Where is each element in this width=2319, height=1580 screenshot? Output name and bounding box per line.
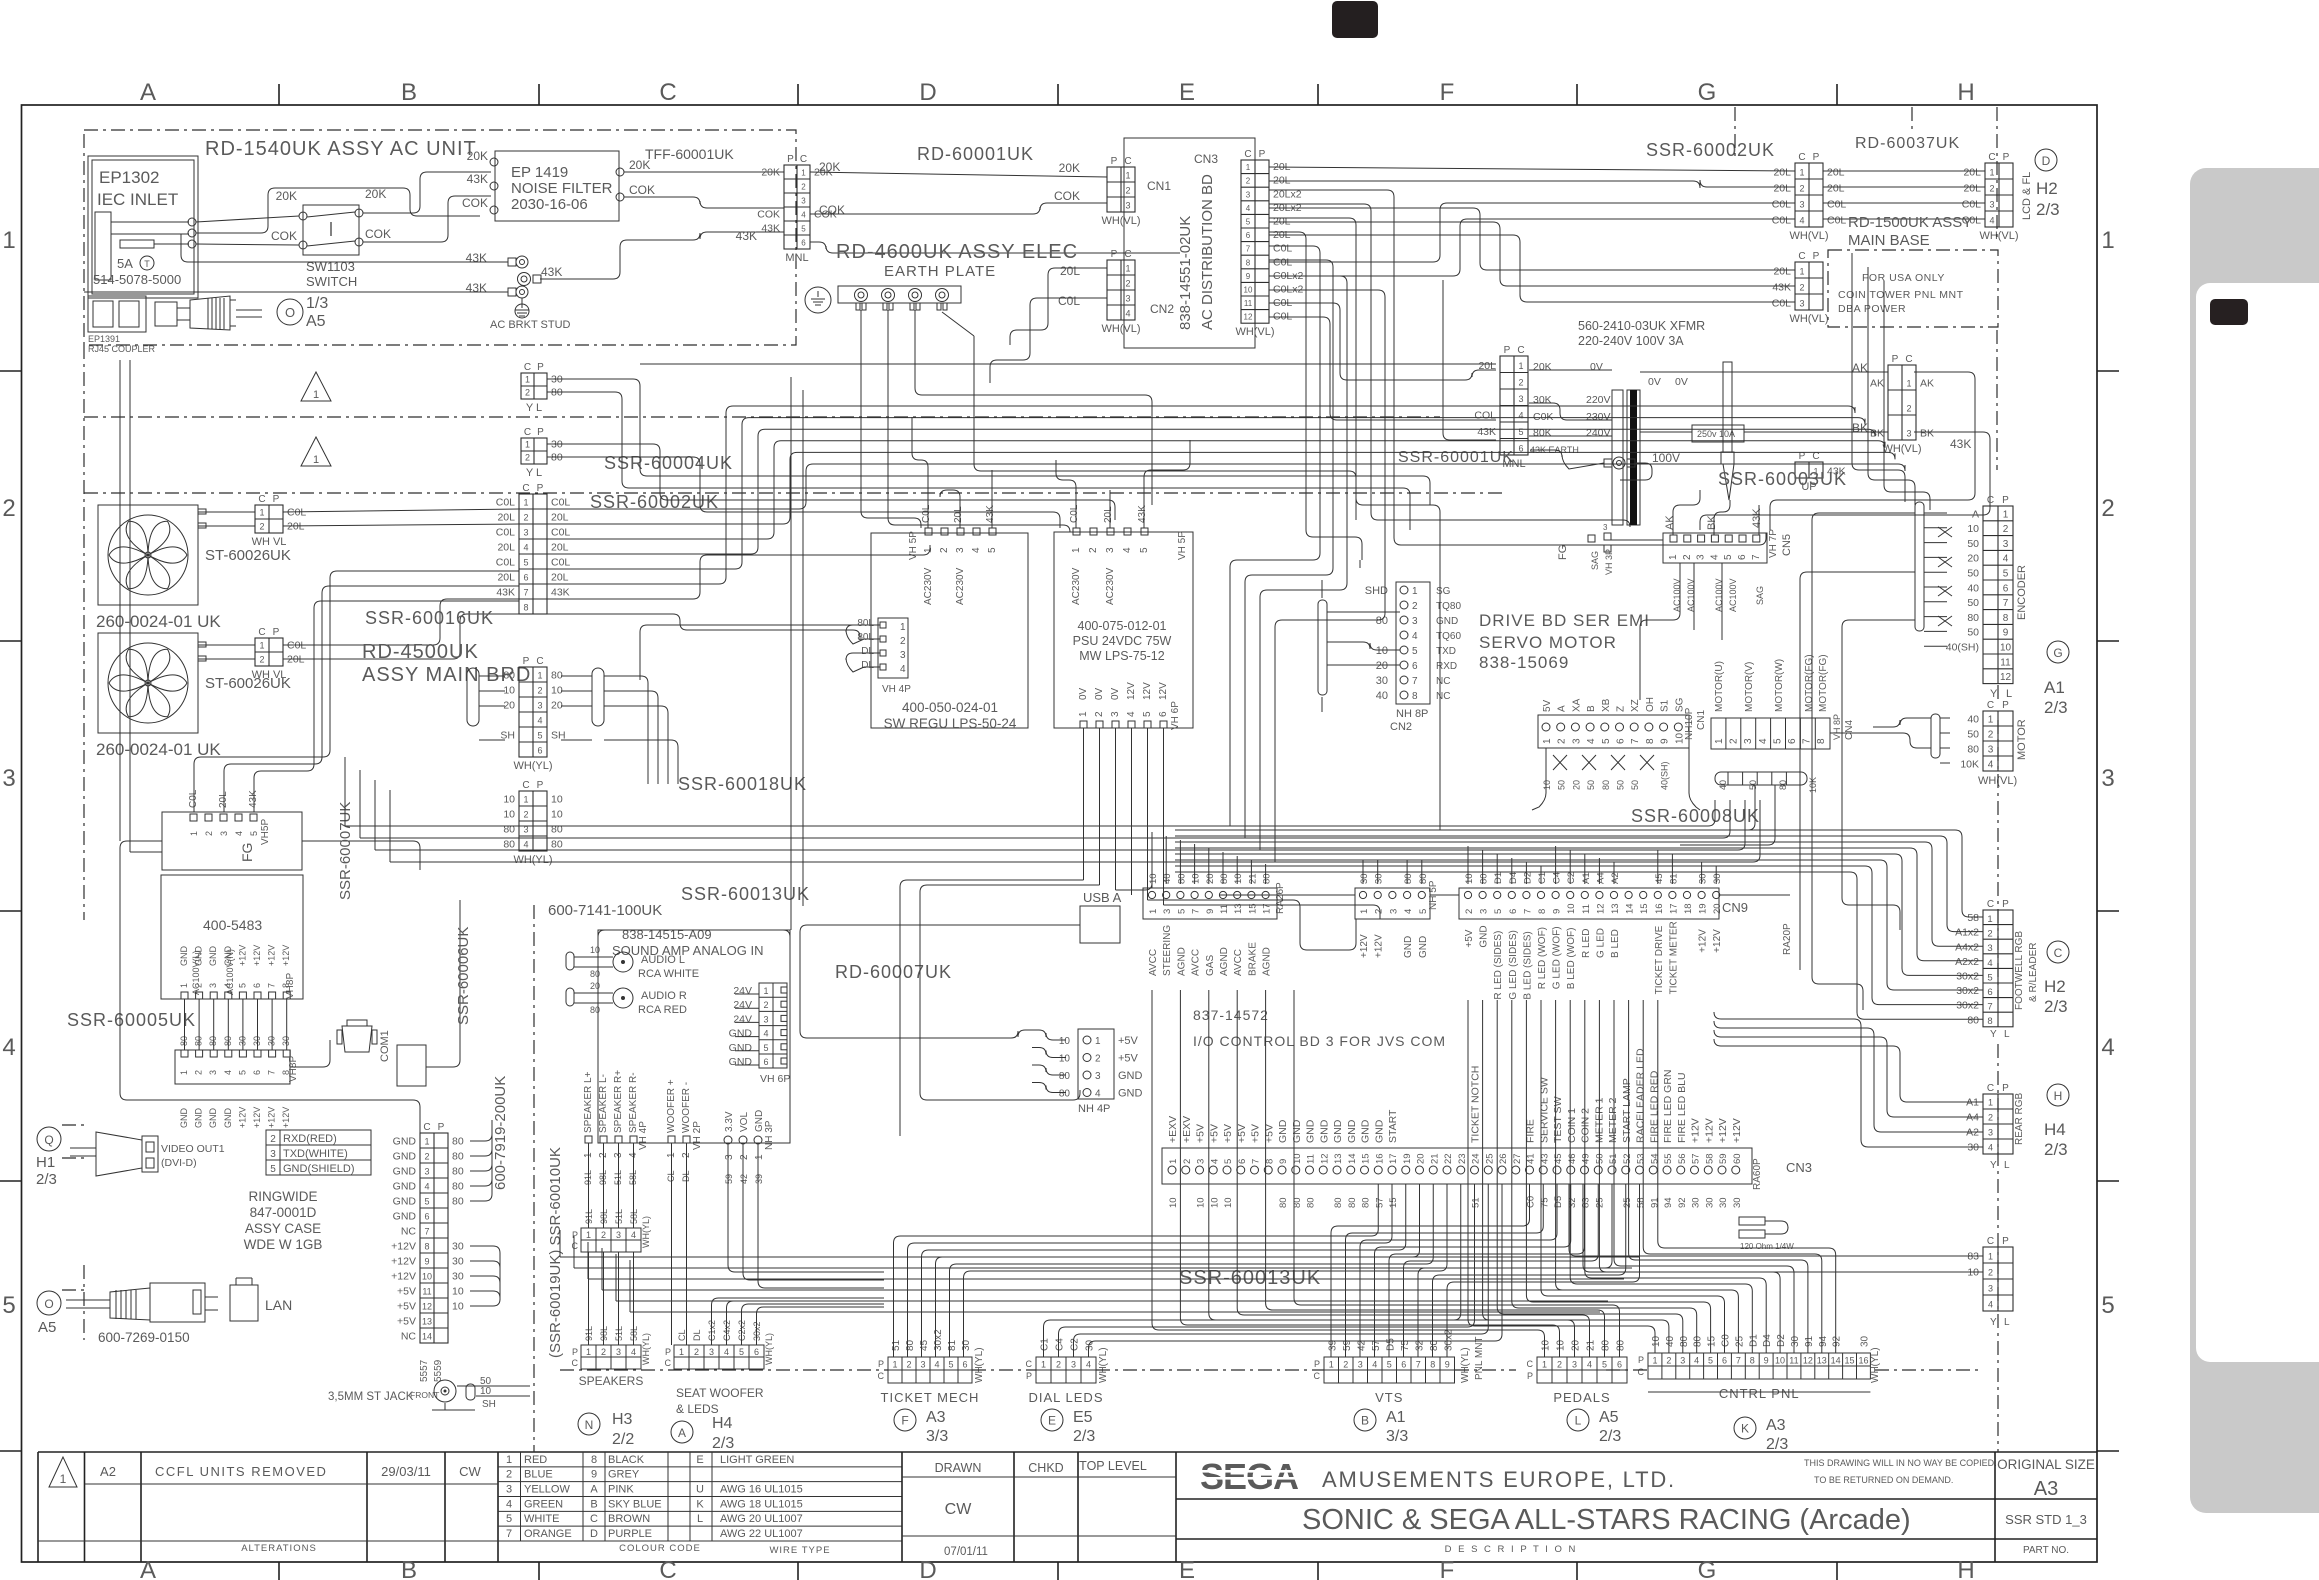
svg-text:+12V: +12V <box>252 1107 262 1128</box>
svg-text:51: 51 <box>1471 1197 1482 1208</box>
svg-text:P: P <box>1527 1371 1533 1381</box>
svg-text:C0K: C0K <box>1533 411 1553 423</box>
svg-text:400-075-012-01: 400-075-012-01 <box>1078 619 1167 633</box>
svg-text:SONIC & SEGA ALL-STARS RACING: SONIC & SEGA ALL-STARS RACING (Arcade) <box>1302 1504 1911 1536</box>
svg-text:52: 52 <box>1622 1153 1633 1164</box>
svg-text:NC: NC <box>1436 676 1450 687</box>
svg-text:10: 10 <box>1775 1356 1785 1366</box>
svg-text:SSR-60013UK: SSR-60013UK <box>1179 1267 1321 1289</box>
svg-text:4: 4 <box>2 1034 15 1061</box>
svg-text:20L: 20L <box>1773 167 1791 179</box>
svg-text:TO BE RETURNED ON DEMAND.: TO BE RETURNED ON DEMAND. <box>1814 1475 1953 1485</box>
svg-text:3: 3 <box>763 1014 768 1024</box>
svg-text:80: 80 <box>452 1196 464 1208</box>
svg-text:+5V: +5V <box>397 1301 416 1313</box>
svg-text:+12V: +12V <box>267 945 277 966</box>
svg-text:9: 9 <box>1764 1356 1769 1366</box>
svg-text:56: 56 <box>1677 1153 1688 1164</box>
svg-text:A2: A2 <box>100 1464 116 1479</box>
svg-text:& LEDS: & LEDS <box>676 1402 719 1416</box>
svg-text:4: 4 <box>1587 1360 1592 1370</box>
svg-text:USB A: USB A <box>1083 890 1122 905</box>
svg-text:PSU 24VDC 75W: PSU 24VDC 75W <box>1073 634 1172 648</box>
svg-text:4: 4 <box>1209 1159 1220 1164</box>
svg-text:WH(VL): WH(VL) <box>1979 230 2018 242</box>
svg-text:H2: H2 <box>2036 179 2058 198</box>
svg-text:4: 4 <box>1412 631 1418 642</box>
svg-text:SKY BLUE: SKY BLUE <box>608 1498 662 1510</box>
svg-text:30: 30 <box>1732 1197 1743 1208</box>
svg-text:BLACK: BLACK <box>608 1454 645 1466</box>
svg-text:D5: D5 <box>1385 1338 1396 1351</box>
svg-text:8: 8 <box>1430 1360 1435 1370</box>
svg-text:1: 1 <box>313 454 319 466</box>
svg-text:C0L: C0L <box>921 504 932 523</box>
svg-text:3: 3 <box>2003 539 2009 550</box>
svg-text:+12V: +12V <box>1698 929 1709 953</box>
svg-text:CN1: CN1 <box>1147 179 1171 193</box>
svg-text:LAN: LAN <box>265 1297 292 1313</box>
svg-text:AC230V: AC230V <box>955 567 966 605</box>
svg-text:43K: 43K <box>736 229 757 243</box>
svg-text:1: 1 <box>1987 914 1992 925</box>
svg-text:C: C <box>524 427 531 438</box>
svg-text:2/3: 2/3 <box>2036 200 2060 219</box>
svg-text:80: 80 <box>1601 1339 1612 1351</box>
svg-text:NH 8P: NH 8P <box>1396 708 1428 720</box>
svg-text:SSR-60004UK: SSR-60004UK <box>604 453 733 473</box>
svg-text:GND: GND <box>194 1108 204 1129</box>
svg-text:43K: 43K <box>466 281 487 295</box>
svg-text:80: 80 <box>1616 1339 1627 1351</box>
svg-text:80: 80 <box>452 1181 464 1193</box>
svg-text:P: P <box>2002 1083 2009 1094</box>
svg-text:START: START <box>1387 1109 1399 1143</box>
svg-text:14: 14 <box>1625 903 1636 914</box>
svg-text:8: 8 <box>1537 909 1548 914</box>
svg-text:+5V: +5V <box>1263 1124 1275 1143</box>
svg-text:8: 8 <box>1645 738 1656 744</box>
svg-text:3: 3 <box>537 701 542 711</box>
svg-text:8: 8 <box>523 603 528 613</box>
svg-text:20L: 20L <box>551 542 569 554</box>
svg-text:1: 1 <box>1989 168 1994 178</box>
svg-text:51: 51 <box>891 1339 902 1351</box>
svg-text:+5V: +5V <box>1195 1124 1207 1143</box>
svg-text:SG: SG <box>1436 586 1451 597</box>
svg-text:C: C <box>1124 156 1131 167</box>
svg-text:C4: C4 <box>1552 872 1563 884</box>
svg-text:26: 26 <box>1498 1153 1509 1164</box>
svg-text:2: 2 <box>204 831 214 836</box>
svg-text:0V: 0V <box>1078 687 1089 700</box>
svg-text:XZ: XZ <box>1630 699 1641 712</box>
svg-text:MW LPS-75-12: MW LPS-75-12 <box>1079 649 1164 663</box>
svg-text:60: 60 <box>1732 1153 1743 1164</box>
svg-text:5557: 5557 <box>419 1359 430 1382</box>
svg-text:VH 4P: VH 4P <box>882 684 911 695</box>
svg-text:40(SH): 40(SH) <box>1660 761 1670 790</box>
svg-text:GND: GND <box>1360 1119 1372 1143</box>
svg-text:80: 80 <box>1176 873 1187 884</box>
svg-text:9: 9 <box>1660 738 1671 744</box>
svg-text:3: 3 <box>424 1167 429 1177</box>
svg-text:+12V: +12V <box>237 945 247 966</box>
svg-text:G LED (WOF): G LED (WOF) <box>1552 926 1563 989</box>
svg-text:D4: D4 <box>1508 872 1519 884</box>
svg-text:80: 80 <box>905 1339 916 1351</box>
svg-text:RA60P: RA60P <box>1752 1158 1763 1190</box>
svg-text:AWG 20 UL1007: AWG 20 UL1007 <box>720 1513 803 1525</box>
svg-text:2: 2 <box>1666 1356 1671 1366</box>
svg-text:43K: 43K <box>761 223 780 235</box>
svg-text:80: 80 <box>1967 612 1979 624</box>
svg-text:43K: 43K <box>1137 505 1148 523</box>
svg-text:C: C <box>1638 1367 1645 1377</box>
svg-text:+12V: +12V <box>267 1107 277 1128</box>
svg-text:80: 80 <box>590 1005 600 1015</box>
svg-text:7: 7 <box>1522 909 1533 914</box>
svg-text:METER 2: METER 2 <box>1607 1097 1619 1143</box>
svg-text:MOTOR(W): MOTOR(W) <box>1774 659 1785 712</box>
svg-text:WH VL: WH VL <box>252 536 287 548</box>
svg-text:50: 50 <box>1616 780 1626 790</box>
svg-text:17: 17 <box>1668 903 1679 914</box>
svg-text:4: 4 <box>971 547 982 553</box>
svg-text:9: 9 <box>1278 1159 1289 1164</box>
svg-text:2: 2 <box>1989 184 1994 194</box>
svg-text:CN5: CN5 <box>1781 534 1793 556</box>
svg-text:43K: 43K <box>466 251 487 265</box>
svg-text:CNTRL PNL: CNTRL PNL <box>1719 1386 1800 1401</box>
svg-text:250v 10A: 250v 10A <box>1697 429 1735 439</box>
svg-text:SPEAKER R+: SPEAKER R+ <box>613 1070 624 1133</box>
svg-text:MOTOR(U): MOTOR(U) <box>1714 661 1725 712</box>
svg-text:A3: A3 <box>926 1409 946 1426</box>
svg-text:80: 80 <box>503 839 515 851</box>
svg-text:CCFL UNITS REMOVED: CCFL UNITS REMOVED <box>155 1464 327 1479</box>
svg-text:13: 13 <box>1333 1153 1344 1164</box>
svg-text:L: L <box>2004 1029 2010 1040</box>
svg-text:MOTOR: MOTOR <box>2016 719 2028 760</box>
svg-text:3: 3 <box>1196 1159 1207 1164</box>
svg-text:D: D <box>919 1557 936 1580</box>
svg-text:10: 10 <box>452 1286 464 1298</box>
svg-text:A5: A5 <box>306 313 326 330</box>
svg-text:AVCC: AVCC <box>1233 949 1244 976</box>
svg-text:(SSR-60019UK) SSR-60010UK: (SSR-60019UK) SSR-60010UK <box>547 1147 564 1358</box>
svg-text:2: 2 <box>1729 738 1740 744</box>
svg-text:20K: 20K <box>761 167 780 179</box>
svg-text:220-240V 100V 3A: 220-240V 100V 3A <box>1578 334 1684 348</box>
svg-text:GND: GND <box>1118 1070 1143 1082</box>
svg-text:39: 39 <box>754 1174 764 1184</box>
svg-text:MOTOR(V): MOTOR(V) <box>1744 662 1755 712</box>
svg-text:80L: 80L <box>857 618 874 629</box>
svg-text:30: 30 <box>1718 1197 1729 1208</box>
svg-text:YELLOW: YELLOW <box>524 1484 570 1496</box>
svg-text:1: 1 <box>525 440 530 450</box>
svg-text:50: 50 <box>1557 780 1567 790</box>
svg-text:C: C <box>659 79 676 106</box>
svg-text:CN2: CN2 <box>1150 302 1174 316</box>
svg-text:WDE W 1GB: WDE W 1GB <box>244 1237 323 1252</box>
svg-text:80: 80 <box>452 1136 464 1148</box>
svg-text:11: 11 <box>1581 904 1592 914</box>
svg-text:1: 1 <box>679 1347 684 1357</box>
svg-text:400-050-024-01: 400-050-024-01 <box>902 700 998 715</box>
svg-text:SSR-60006UK: SSR-60006UK <box>455 927 472 1025</box>
svg-text:29/03/11: 29/03/11 <box>381 1464 431 1479</box>
svg-text:6: 6 <box>2003 583 2009 594</box>
svg-text:RD-4600UK ASSY ELEC: RD-4600UK ASSY ELEC <box>836 241 1078 263</box>
svg-text:P: P <box>1111 249 1118 260</box>
svg-text:SSR-60003UK: SSR-60003UK <box>1718 469 1847 489</box>
svg-text:WH(YL): WH(YL) <box>1098 1347 1109 1383</box>
svg-text:8: 8 <box>2003 613 2009 624</box>
svg-text:20L: 20L <box>497 512 515 524</box>
svg-text:7: 7 <box>1630 738 1641 744</box>
svg-text:VIDEO OUT1: VIDEO OUT1 <box>161 1143 225 1155</box>
svg-text:RCA WHITE: RCA WHITE <box>638 968 699 980</box>
svg-text:9: 9 <box>1246 272 1251 281</box>
svg-text:10: 10 <box>1223 1197 1234 1208</box>
svg-text:2: 2 <box>525 453 530 463</box>
svg-text:NC: NC <box>1436 691 1450 702</box>
svg-text:5: 5 <box>1518 427 1523 437</box>
svg-text:WH(YL): WH(YL) <box>641 1216 651 1248</box>
svg-text:C: C <box>522 780 529 791</box>
svg-text:59: 59 <box>724 1174 734 1184</box>
svg-text:BRAKE: BRAKE <box>1247 942 1258 976</box>
svg-text:VH8P: VH8P <box>285 973 296 999</box>
svg-text:H4: H4 <box>712 1415 733 1432</box>
svg-text:4: 4 <box>631 1230 636 1240</box>
svg-text:AC230V: AC230V <box>1071 567 1082 605</box>
svg-text:32: 32 <box>1567 1197 1578 1208</box>
svg-text:4: 4 <box>1988 1300 1993 1310</box>
svg-text:VH8P: VH8P <box>288 1056 299 1082</box>
svg-text:+5V: +5V <box>1464 929 1475 947</box>
svg-text:1: 1 <box>523 498 528 508</box>
svg-text:14: 14 <box>422 1332 432 1342</box>
svg-text:AC BRKT STUD: AC BRKT STUD <box>490 319 571 331</box>
svg-text:G LED (SIDES): G LED (SIDES) <box>1508 930 1519 999</box>
svg-text:RJ45 COUPLER: RJ45 COUPLER <box>88 344 156 354</box>
svg-text:2: 2 <box>1246 177 1251 186</box>
svg-text:AWG 22 UL1007: AWG 22 UL1007 <box>720 1528 803 1540</box>
svg-text:SERVICE SW: SERVICE SW <box>1538 1077 1550 1143</box>
svg-text:80: 80 <box>1376 615 1388 627</box>
svg-text:0V: 0V <box>1590 361 1603 373</box>
svg-text:2/3: 2/3 <box>1599 1428 1621 1445</box>
svg-text:12: 12 <box>422 1302 432 1312</box>
svg-text:1: 1 <box>2 227 15 254</box>
svg-text:A3: A3 <box>2034 1478 2058 1500</box>
svg-text:C: C <box>1987 899 1994 910</box>
svg-text:ALTERATIONS: ALTERATIONS <box>241 1543 317 1554</box>
svg-text:1: 1 <box>1125 264 1130 274</box>
svg-text:6: 6 <box>763 1057 768 1067</box>
svg-text:P: P <box>1892 354 1899 365</box>
svg-text:4: 4 <box>1372 1360 1377 1370</box>
svg-text:100V: 100V <box>1652 451 1680 465</box>
svg-text:A: A <box>140 1557 156 1580</box>
svg-text:13: 13 <box>1610 903 1621 914</box>
svg-text:EP1302: EP1302 <box>99 168 160 187</box>
svg-text:CN4: CN4 <box>1844 720 1855 740</box>
svg-text:41: 41 <box>1526 1153 1537 1164</box>
svg-text:DL: DL <box>861 646 874 657</box>
svg-text:1: 1 <box>60 1472 67 1486</box>
svg-text:4: 4 <box>1988 1143 1993 1153</box>
svg-text:2: 2 <box>1056 1360 1061 1370</box>
svg-text:SSR-60016UK: SSR-60016UK <box>365 608 494 628</box>
svg-text:CHKD: CHKD <box>1028 1461 1063 1475</box>
svg-text:10: 10 <box>1556 1339 1567 1351</box>
svg-text:3: 3 <box>2101 765 2114 792</box>
svg-text:80: 80 <box>452 1166 464 1178</box>
svg-text:20K: 20K <box>365 187 386 201</box>
svg-text:80: 80 <box>1967 744 1979 756</box>
svg-text:2: 2 <box>259 655 264 665</box>
svg-text:A5: A5 <box>1599 1409 1619 1426</box>
svg-text:1: 1 <box>1359 909 1370 914</box>
svg-text:600-7141-100UK: 600-7141-100UK <box>548 902 662 919</box>
svg-text:+12V: +12V <box>391 1256 416 1268</box>
svg-text:EP 1419: EP 1419 <box>511 164 568 181</box>
svg-text:G LED: G LED <box>1595 928 1606 958</box>
svg-text:GND: GND <box>1418 936 1429 958</box>
svg-text:AK: AK <box>1920 378 1934 390</box>
svg-text:H2: H2 <box>2044 977 2066 996</box>
svg-text:6: 6 <box>1616 738 1627 744</box>
svg-text:11: 11 <box>2000 657 2011 668</box>
svg-text:FIRE LED GRN: FIRE LED GRN <box>1662 1069 1674 1143</box>
svg-text:B: B <box>1586 705 1597 712</box>
svg-text:1: 1 <box>2003 509 2009 520</box>
svg-text:30: 30 <box>1376 675 1388 687</box>
svg-text:30x2: 30x2 <box>1956 1000 1979 1012</box>
svg-text:GND: GND <box>208 946 218 967</box>
svg-text:9: 9 <box>2003 628 2009 639</box>
svg-text:H: H <box>2054 1089 2063 1103</box>
svg-text:4: 4 <box>1246 204 1251 213</box>
svg-text:12: 12 <box>1319 1153 1330 1164</box>
svg-text:2: 2 <box>1557 1360 1562 1370</box>
svg-text:30: 30 <box>452 1241 464 1253</box>
svg-text:20K: 20K <box>1059 161 1080 175</box>
svg-text:3: 3 <box>2 765 15 792</box>
svg-text:WHITE: WHITE <box>524 1513 559 1525</box>
svg-text:C2: C2 <box>1566 872 1577 884</box>
svg-text:80: 80 <box>1403 873 1414 884</box>
svg-text:D: D <box>919 79 936 106</box>
svg-text:2: 2 <box>270 1134 276 1145</box>
svg-text:COIN 1: COIN 1 <box>1566 1108 1578 1143</box>
svg-text:2: 2 <box>1464 909 1475 914</box>
svg-text:P: P <box>273 627 280 638</box>
svg-text:2: 2 <box>1988 730 1994 741</box>
svg-text:VH5P: VH5P <box>260 819 271 845</box>
svg-text:6: 6 <box>1237 1159 1248 1164</box>
svg-text:2/3: 2/3 <box>1073 1428 1095 1445</box>
svg-text:3: 3 <box>1358 1360 1363 1370</box>
svg-text:Y: Y <box>1990 1160 1997 1171</box>
svg-text:1: 1 <box>506 1454 512 1466</box>
svg-text:AWG 16 UL1015: AWG 16 UL1015 <box>720 1484 803 1496</box>
svg-text:40: 40 <box>1665 1335 1676 1347</box>
svg-text:10: 10 <box>1292 1153 1303 1164</box>
svg-text:GND: GND <box>223 946 233 967</box>
svg-text:+12V: +12V <box>1717 1118 1729 1143</box>
svg-text:AVCC: AVCC <box>1191 949 1202 976</box>
svg-text:P: P <box>537 362 544 373</box>
svg-text:SEAT WOOFER: SEAT WOOFER <box>676 1386 764 1400</box>
svg-text:GND: GND <box>1277 1119 1289 1143</box>
svg-text:VTS: VTS <box>1375 1390 1403 1405</box>
svg-text:COLOUR CODE: COLOUR CODE <box>619 1543 701 1554</box>
svg-text:20: 20 <box>1416 1153 1427 1164</box>
svg-text:11: 11 <box>1789 1356 1798 1366</box>
svg-text:TXD: TXD <box>1436 646 1456 657</box>
svg-text:B LED (SIDES): B LED (SIDES) <box>1522 931 1533 999</box>
svg-text:AK: AK <box>1664 515 1676 530</box>
svg-text:2: 2 <box>1557 738 1568 744</box>
svg-text:DBA POWER: DBA POWER <box>1838 303 1906 315</box>
svg-text:2/2: 2/2 <box>612 1431 634 1448</box>
svg-text:80: 80 <box>1361 1197 1372 1208</box>
svg-text:55: 55 <box>1663 1153 1674 1164</box>
svg-text:6: 6 <box>962 1360 967 1370</box>
svg-text:C2: C2 <box>1070 1338 1081 1351</box>
svg-text:H: H <box>1957 1557 1974 1580</box>
svg-text:AC DISTRIBUTION BD: AC DISTRIBUTION BD <box>1199 174 1216 330</box>
svg-text:1: 1 <box>1799 267 1804 277</box>
svg-text:+5V: +5V <box>1222 1124 1234 1143</box>
svg-text:C0L: C0L <box>1772 215 1791 227</box>
svg-text:4: 4 <box>1758 738 1769 744</box>
svg-text:SEGA: SEGA <box>1200 1456 1299 1497</box>
svg-text:A2: A2 <box>1610 872 1621 884</box>
svg-text:13: 13 <box>422 1317 432 1327</box>
svg-text:5: 5 <box>987 547 998 553</box>
svg-text:20: 20 <box>590 981 600 991</box>
svg-text:3: 3 <box>1988 1128 1993 1138</box>
svg-text:SW1103: SW1103 <box>306 259 355 274</box>
svg-text:80: 80 <box>1262 873 1273 884</box>
svg-text:+12V: +12V <box>391 1271 416 1283</box>
svg-text:30: 30 <box>1374 873 1385 884</box>
svg-text:GND: GND <box>393 1196 417 1208</box>
svg-text:20L: 20L <box>1060 264 1080 278</box>
svg-text:6: 6 <box>754 1347 759 1357</box>
svg-text:9: 9 <box>424 1257 429 1267</box>
svg-text:43K: 43K <box>1477 426 1496 438</box>
svg-text:O: O <box>44 1297 53 1311</box>
svg-text:2/3: 2/3 <box>2044 1140 2068 1159</box>
svg-text:+12V: +12V <box>1731 1118 1743 1143</box>
svg-text:B: B <box>401 79 417 106</box>
svg-text:Y: Y <box>1990 688 1998 700</box>
svg-text:4: 4 <box>1799 216 1804 226</box>
svg-text:81: 81 <box>1668 873 1679 884</box>
svg-text:50: 50 <box>1967 538 1979 550</box>
svg-text:1: 1 <box>1714 738 1725 744</box>
svg-text:RINGWIDE: RINGWIDE <box>249 1189 318 1204</box>
svg-text:TOP LEVEL: TOP LEVEL <box>1079 1459 1147 1473</box>
svg-text:50: 50 <box>1630 780 1640 790</box>
